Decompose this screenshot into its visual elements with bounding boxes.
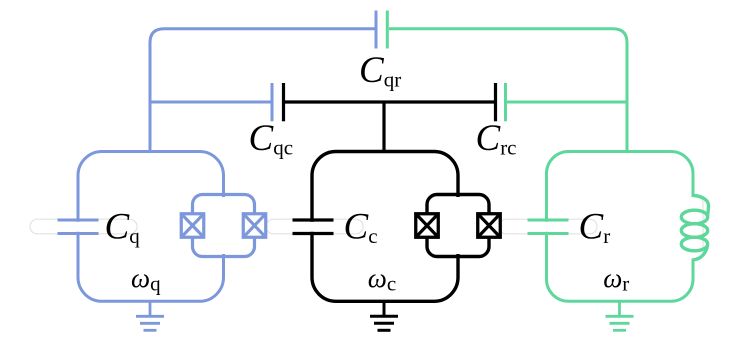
- svg-text:Cqr: Cqr: [359, 50, 401, 92]
- svg-text:Crc: Crc: [476, 118, 517, 160]
- svg-text:Cr: Cr: [579, 207, 611, 249]
- svg-text:Cq: Cq: [105, 207, 141, 249]
- svg-text:ωr: ωr: [603, 263, 629, 296]
- svg-text:ωq: ωq: [131, 263, 161, 296]
- svg-text:ωc: ωc: [368, 263, 396, 296]
- svg-text:Cc: Cc: [344, 207, 378, 249]
- svg-text:Cqc: Cqc: [249, 118, 294, 160]
